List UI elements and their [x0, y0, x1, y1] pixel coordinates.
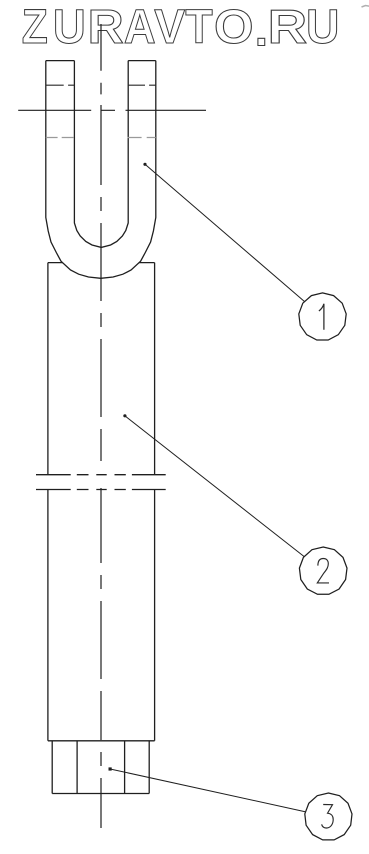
svg-text:U: U	[306, 0, 339, 53]
balloon circle 3	[305, 793, 352, 840]
leader line 3	[110, 769, 305, 812]
fork outer profile	[46, 61, 156, 279]
hidden hole line lower (gray dashed)	[46, 137, 156, 139]
svg-text:V: V	[154, 0, 185, 53]
leader dot 3	[109, 767, 112, 770]
vertical center axis (dash-dot)	[100, 24, 102, 828]
leader dot 1	[143, 163, 146, 166]
leader dot 2	[123, 414, 126, 417]
balloon digit 2	[317, 559, 329, 583]
svg-text:R: R	[268, 0, 308, 53]
logo ZURAVTO.RU	[22, 0, 340, 57]
svg-text:T: T	[185, 0, 212, 53]
joint break line lower	[36, 489, 166, 491]
svg-text:A: A	[124, 0, 156, 53]
balloon digit 1	[319, 304, 324, 330]
joint break line upper	[36, 474, 166, 476]
leader line 1	[145, 164, 305, 301]
svg-text:.: .	[255, 3, 268, 57]
balloon circle 2	[299, 547, 347, 594]
rod right edge	[154, 263, 156, 741]
horizontal hole axis line	[18, 109, 206, 111]
svg-text:O: O	[214, 0, 254, 53]
svg-text:U: U	[53, 0, 86, 53]
rod left edge	[47, 263, 49, 741]
fork inner slot	[74, 61, 128, 248]
rod top shoulder lines	[48, 262, 155, 264]
rod bottom line	[48, 740, 155, 742]
hidden hole line upper (dashed)	[46, 84, 156, 86]
leader line 2	[125, 416, 304, 557]
svg-text:R: R	[88, 1, 124, 54]
balloon circle 1	[299, 293, 346, 340]
watermark artifact top-right	[362, 6, 369, 8]
threaded end body	[52, 741, 149, 794]
balloon digit 3	[322, 805, 334, 828]
svg-text:Z: Z	[22, 0, 48, 54]
